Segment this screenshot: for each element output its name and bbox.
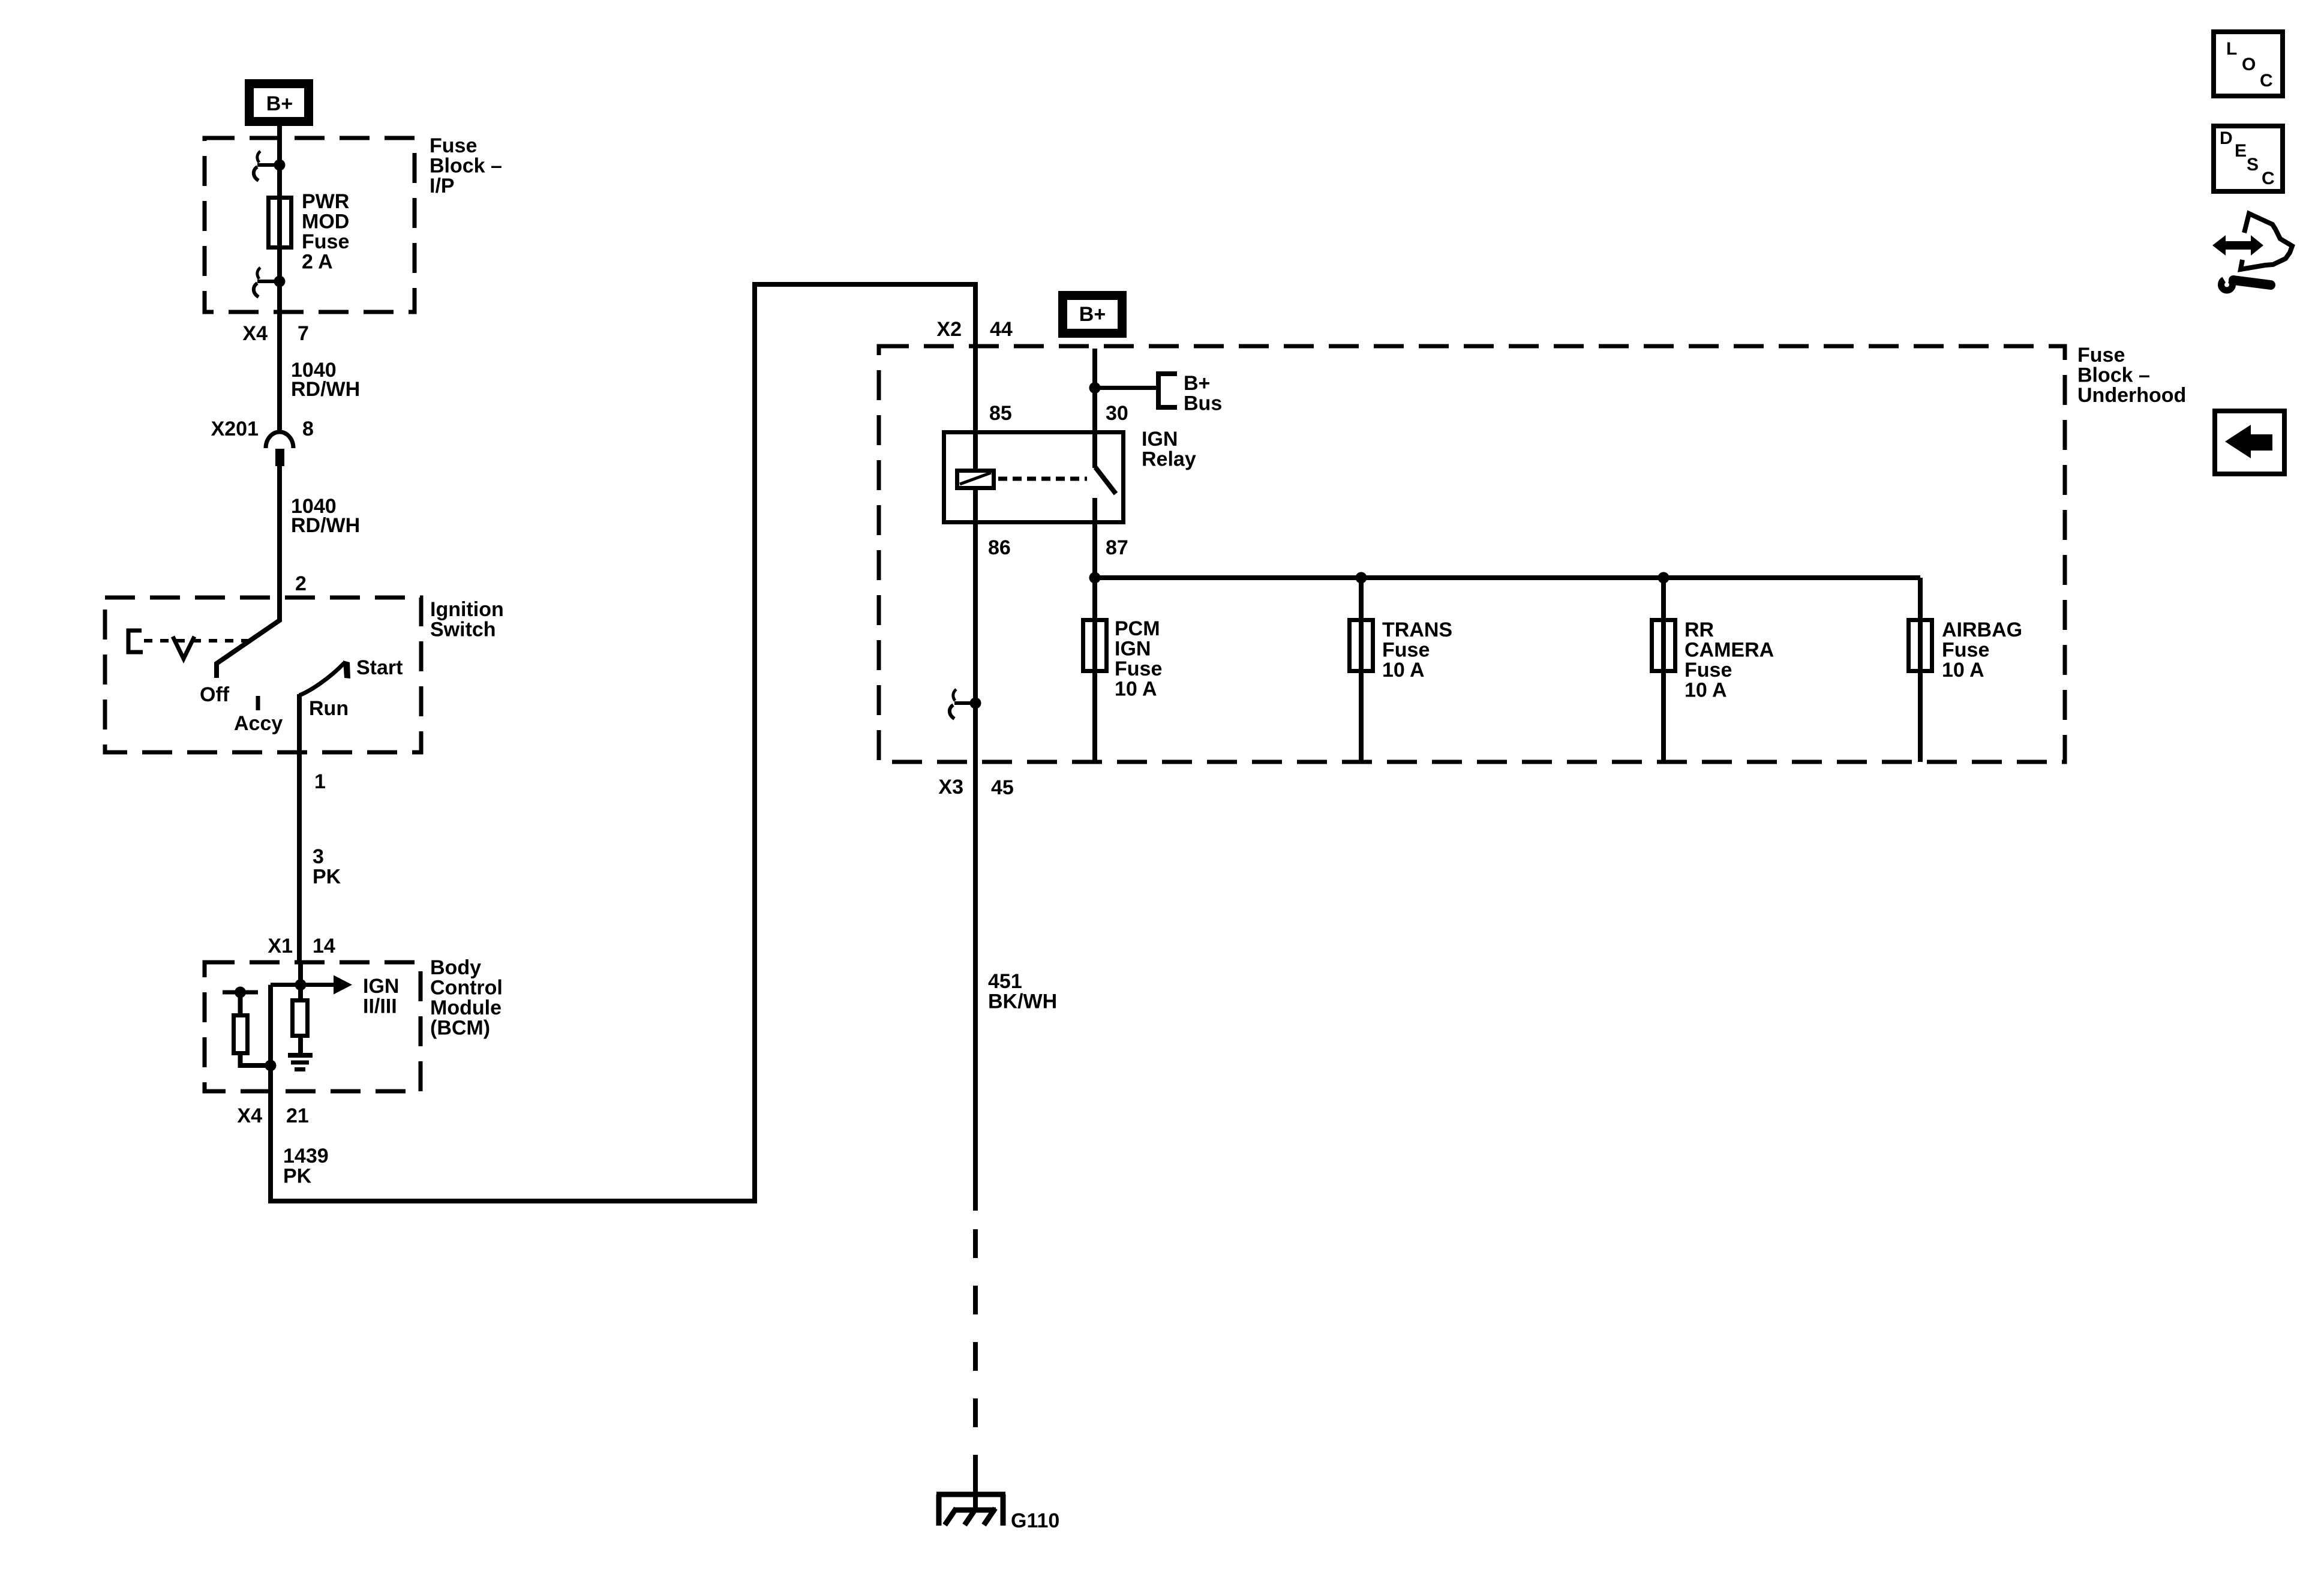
svg-text:Start: Start — [356, 656, 403, 679]
svg-text:Fuse: Fuse — [302, 230, 349, 253]
svg-text:45: 45 — [991, 776, 1014, 799]
svg-text:L: L — [2226, 39, 2237, 59]
svg-text:B+: B+ — [1079, 303, 1106, 326]
svg-text:IGN: IGN — [1115, 638, 1151, 661]
svg-text:3: 3 — [313, 845, 324, 868]
svg-text:BK/WH: BK/WH — [988, 990, 1057, 1013]
svg-text:TRANS: TRANS — [1382, 619, 1452, 641]
svg-text:(BCM): (BCM) — [430, 1017, 490, 1040]
svg-text:Underhood: Underhood — [2077, 384, 2186, 407]
svg-text:Fuse: Fuse — [1942, 639, 1989, 662]
svg-text:10 A: 10 A — [1942, 659, 1984, 682]
svg-text:PK: PK — [313, 866, 341, 888]
svg-text:X4: X4 — [242, 322, 268, 345]
svg-text:C: C — [2262, 169, 2275, 188]
svg-text:8: 8 — [302, 418, 314, 440]
svg-text:Relay: Relay — [1142, 448, 1196, 471]
svg-text:I/P: I/P — [430, 175, 455, 197]
svg-text:X3: X3 — [938, 776, 963, 798]
svg-text:Body: Body — [430, 956, 481, 979]
svg-text:AIRBAG: AIRBAG — [1942, 619, 2022, 641]
svg-text:10 A: 10 A — [1115, 678, 1157, 701]
svg-text:Bus: Bus — [1184, 392, 1222, 415]
svg-text:Ignition: Ignition — [430, 598, 504, 621]
svg-text:30: 30 — [1106, 402, 1128, 425]
svg-text:1: 1 — [314, 770, 326, 793]
svg-text:O: O — [2242, 55, 2256, 74]
svg-text:RD/WH: RD/WH — [291, 514, 360, 537]
svg-text:B+: B+ — [266, 92, 293, 115]
svg-text:S: S — [2247, 155, 2259, 175]
svg-text:IGN: IGN — [363, 975, 399, 998]
svg-text:RR: RR — [1685, 619, 1714, 641]
svg-text:Run: Run — [309, 697, 349, 720]
svg-text:7: 7 — [298, 322, 309, 345]
svg-text:PWR: PWR — [302, 190, 349, 213]
svg-text:85: 85 — [989, 402, 1012, 425]
svg-text:451: 451 — [988, 970, 1022, 993]
svg-text:Module: Module — [430, 996, 502, 1019]
svg-text:Block –: Block – — [430, 155, 502, 178]
svg-text:10 A: 10 A — [1685, 679, 1727, 702]
svg-text:Fuse: Fuse — [430, 134, 477, 157]
svg-text:X2: X2 — [936, 318, 962, 341]
svg-text:Switch: Switch — [430, 619, 496, 641]
svg-text:2 A: 2 A — [302, 251, 333, 274]
svg-text:14: 14 — [313, 935, 335, 957]
svg-text:RD/WH: RD/WH — [291, 378, 360, 401]
svg-text:Fuse: Fuse — [1382, 639, 1430, 662]
svg-text:D: D — [2220, 128, 2233, 148]
svg-text:PCM: PCM — [1115, 617, 1160, 640]
svg-text:X4: X4 — [237, 1104, 262, 1127]
svg-text:44: 44 — [990, 318, 1013, 341]
svg-text:Fuse: Fuse — [2077, 344, 2125, 367]
svg-text:II/III: II/III — [363, 995, 397, 1018]
svg-text:E: E — [2235, 141, 2247, 161]
svg-text:Fuse: Fuse — [1685, 659, 1732, 682]
svg-text:X1: X1 — [268, 935, 293, 957]
svg-text:B+: B+ — [1184, 372, 1210, 395]
svg-text:10 A: 10 A — [1382, 659, 1425, 682]
svg-text:21: 21 — [286, 1104, 309, 1127]
svg-text:1439: 1439 — [283, 1145, 329, 1167]
svg-text:86: 86 — [988, 536, 1011, 559]
svg-text:CAMERA: CAMERA — [1685, 639, 1774, 662]
svg-text:IGN: IGN — [1142, 428, 1178, 451]
svg-text:X201: X201 — [211, 418, 259, 440]
svg-text:87: 87 — [1106, 536, 1128, 559]
svg-text:Block –: Block – — [2077, 364, 2150, 387]
svg-text:2: 2 — [295, 572, 307, 595]
svg-text:Off: Off — [200, 683, 230, 706]
svg-text:C: C — [2260, 71, 2273, 91]
svg-text:Fuse: Fuse — [1115, 658, 1162, 680]
svg-text:G110: G110 — [1011, 1509, 1059, 1532]
svg-text:Control: Control — [430, 977, 503, 999]
svg-text:MOD: MOD — [302, 211, 349, 233]
svg-text:PK: PK — [283, 1165, 312, 1188]
svg-text:Accy: Accy — [234, 712, 283, 735]
